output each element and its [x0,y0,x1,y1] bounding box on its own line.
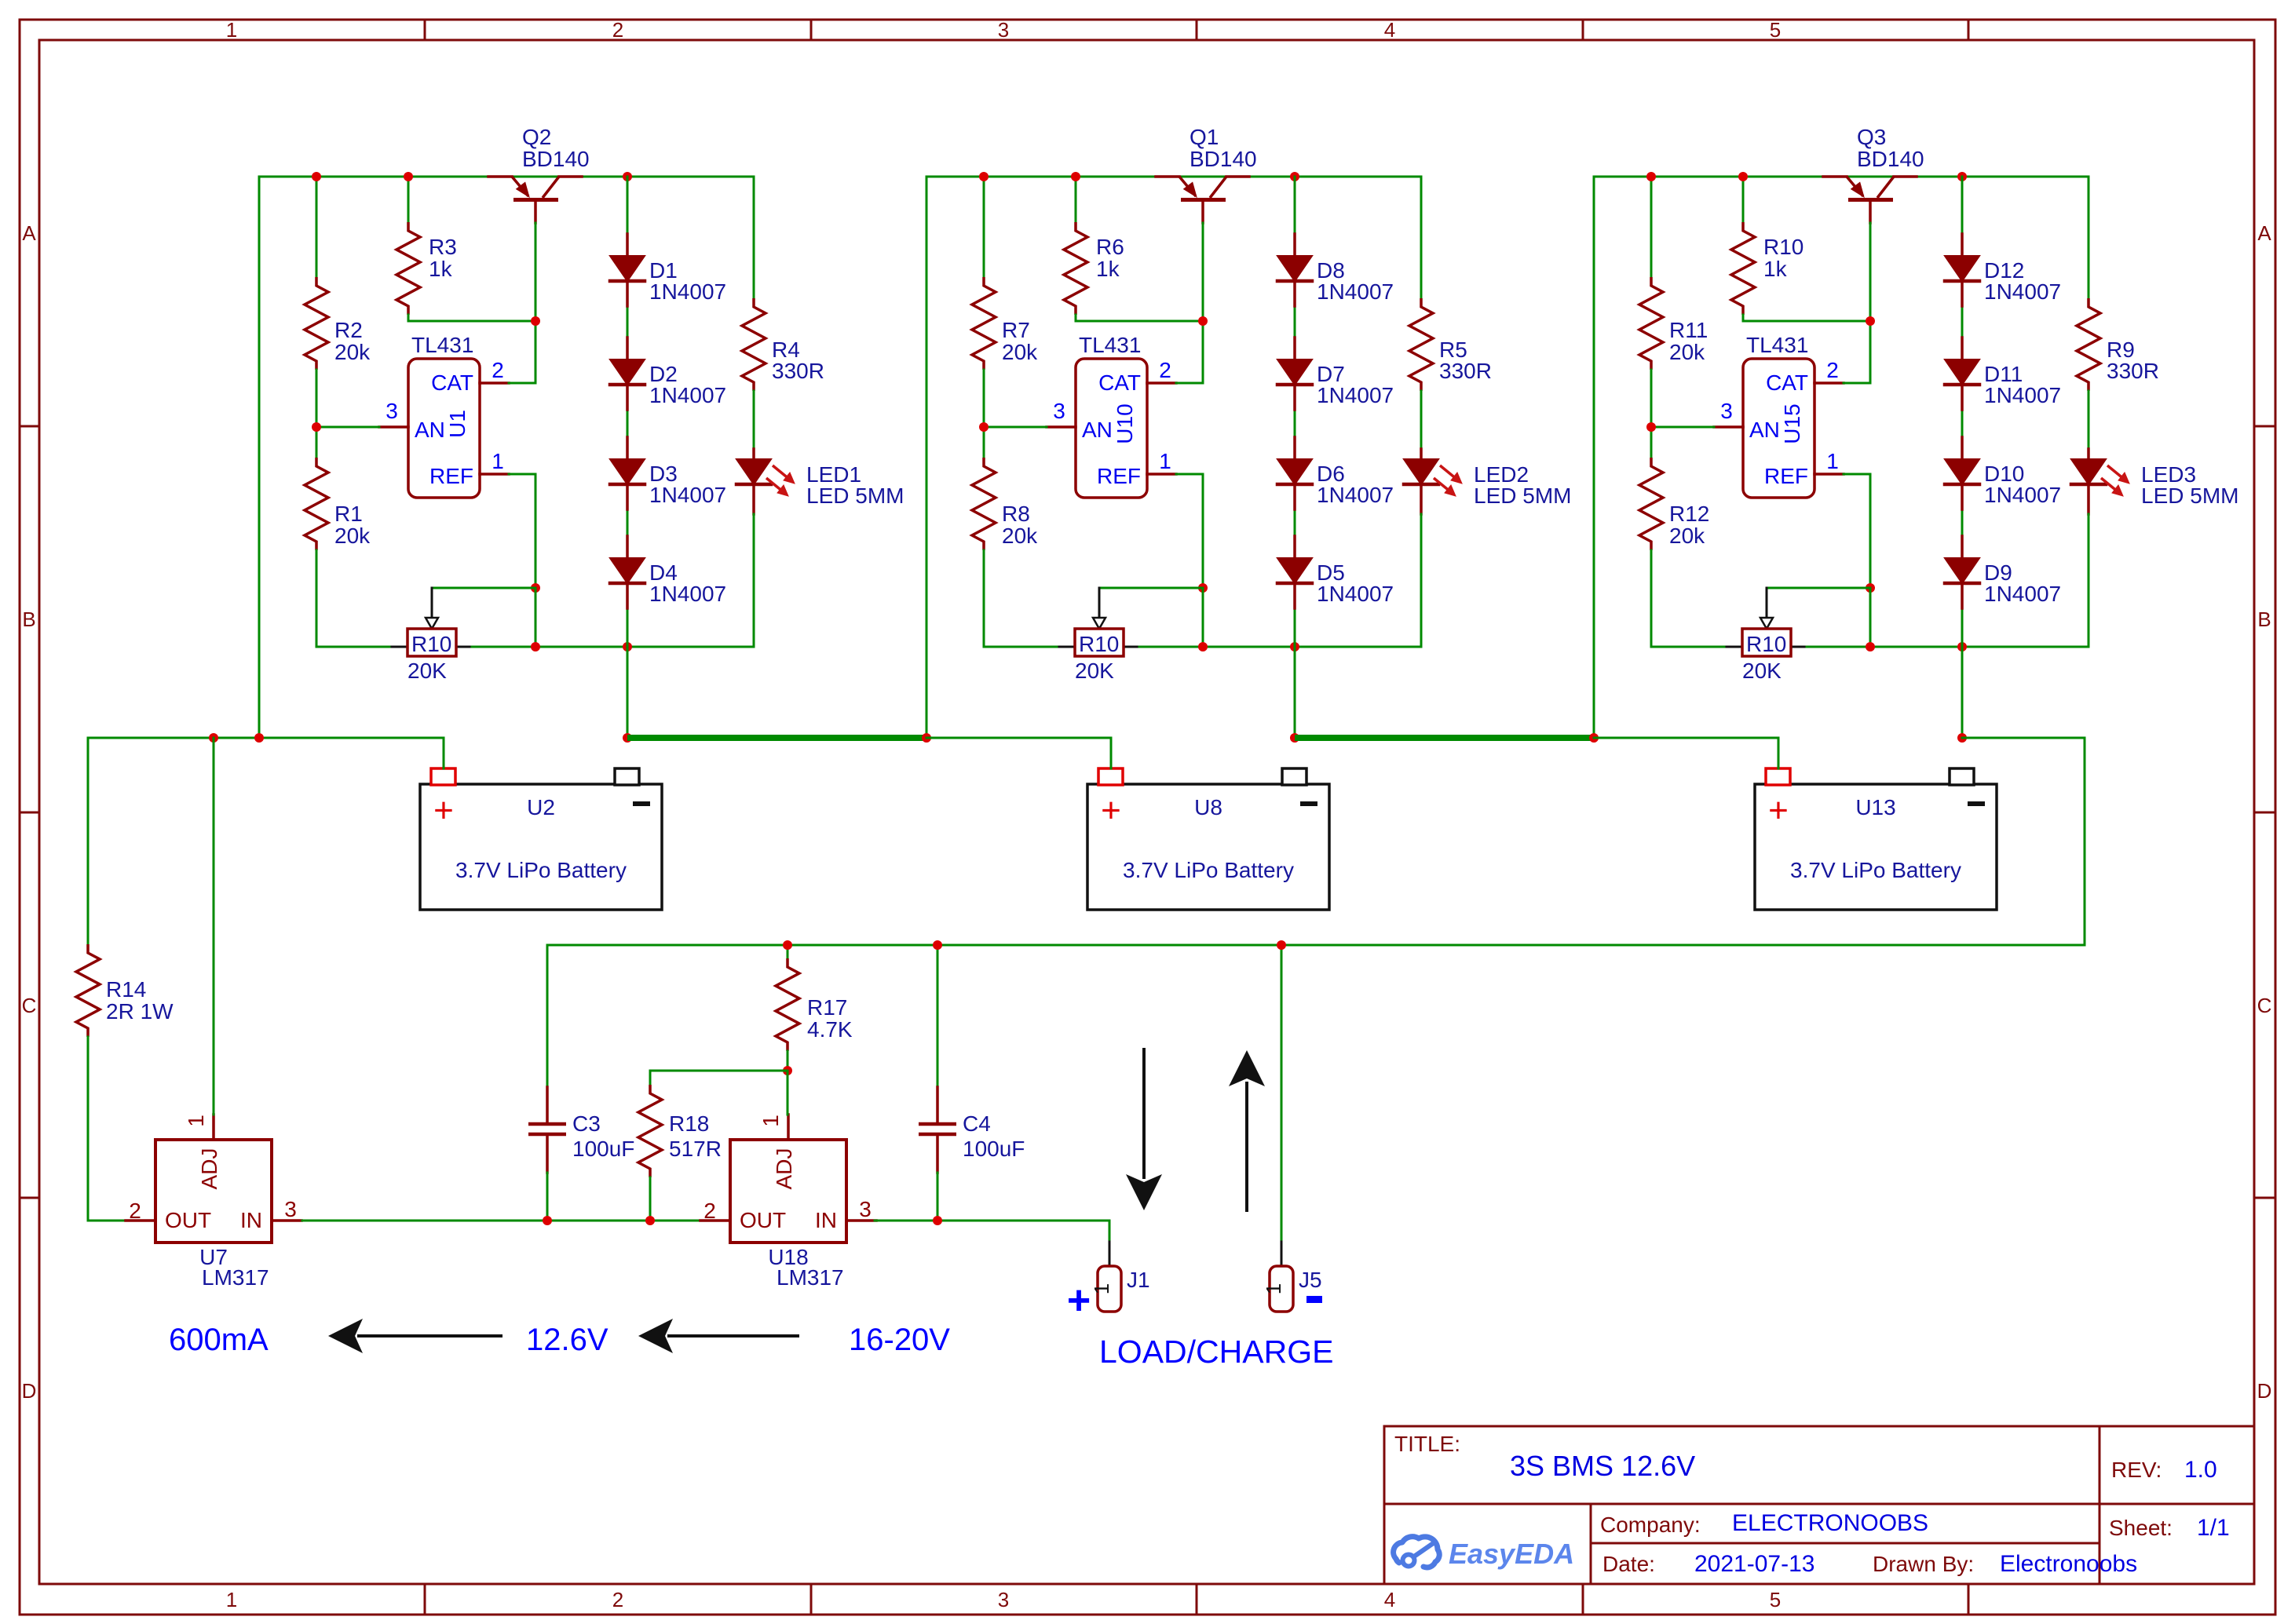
pin 1 REF [1147,449,1203,588]
battery U2 3.7V LiPo [420,768,662,910]
svg-text:R10: R10 [1763,235,1803,259]
svg-text:CAT: CAT [1766,370,1808,395]
svg-text:AN: AN [1082,418,1113,442]
svg-text:20k: 20k [1002,524,1038,548]
svg-text:R6: R6 [1096,235,1124,259]
svg-text:1: 1 [226,1588,237,1611]
wire REF to wiper [1767,587,1870,589]
svg-text:1/1: 1/1 [2197,1515,2230,1541]
wire ADJ U7 riser [213,738,215,1115]
svg-text:AN: AN [415,418,445,442]
svg-text:Sheet:: Sheet: [2109,1516,2173,1540]
svg-text:TL431: TL431 [1079,333,1141,357]
svg-text:1: 1 [1159,449,1171,473]
diode D9 1N4007 [1945,536,2061,608]
svg-text:C: C [2257,994,2272,1017]
diode D8 1N4007 [1277,234,1394,306]
svg-text:100uF: 100uF [572,1137,634,1161]
wire diode column [1961,177,1964,738]
node R3/base junction [531,316,540,326]
svg-text:R17: R17 [807,995,847,1020]
svg-text:3: 3 [386,399,398,423]
label minus terminal [1306,1296,1322,1303]
node top rail junctions [312,172,321,181]
node top rail junctions [979,172,989,181]
svg-text:LED 5MM: LED 5MM [806,484,904,508]
svg-text:Electronoobs: Electronoobs [2000,1551,2137,1577]
svg-text:5: 5 [1770,1588,1781,1611]
svg-text:2: 2 [129,1199,141,1223]
capacitor C3 100uF [528,945,634,1221]
svg-text:U10: U10 [1113,403,1137,443]
wire link to U13+ [1594,738,1778,768]
wire left vertical rail [1593,177,1595,738]
LED LED3 LED 5MM [2071,449,2238,647]
svg-text:R18: R18 [669,1111,709,1136]
svg-text:330R: 330R [2107,359,2159,383]
node C3 bottom [543,1216,552,1225]
wire IN row right [875,1221,1109,1242]
svg-text:330R: 330R [1439,359,1492,383]
transistor Q2 BD140 (PNP) [488,125,590,223]
svg-text:2: 2 [1826,358,1839,382]
svg-text:TL431: TL431 [411,333,473,357]
node C4 bottom [933,1216,942,1225]
svg-text:1: 1 [1262,1283,1285,1294]
wire R17 bottom link [650,1071,788,1085]
LED LED1 LED 5MM [736,449,904,647]
wire REF node down [535,588,537,647]
svg-text:1: 1 [1090,1283,1113,1294]
svg-text:R10: R10 [1746,632,1786,656]
node section1 rail tap [254,733,264,743]
svg-text:1N4007: 1N4007 [1317,483,1394,507]
svg-text:2021-07-13: 2021-07-13 [1694,1551,1814,1577]
svg-text:A: A [22,221,36,245]
svg-text:TITLE:: TITLE: [1394,1432,1460,1456]
svg-text:20k: 20k [1669,524,1705,548]
node U13 minus [1957,733,1967,743]
wire diode column [627,177,629,738]
node R17/R18/ADJ junction [783,1066,792,1075]
svg-text:CAT: CAT [1098,370,1141,395]
resistor R8 20k [972,427,1038,647]
svg-text:Q2: Q2 [522,125,551,149]
resistor R4 330R [742,177,824,449]
node trimmer row junctions [1198,642,1208,651]
potentiometer R10 20K (trimmer) [316,588,754,683]
node R18 bottom [645,1216,655,1225]
resistor R3 1k [397,177,535,321]
wire [937,945,939,1087]
svg-text:Date:: Date: [1602,1552,1655,1576]
pin 3 AN [316,399,408,427]
wire top rail section Q3 [1594,176,2089,178]
svg-text:IN: IN [240,1208,262,1232]
diode D1 1N4007 [610,234,726,306]
svg-text:C4: C4 [963,1111,991,1136]
svg-text:REF: REF [429,464,473,488]
svg-text:20K: 20K [407,659,447,683]
svg-text:1N4007: 1N4007 [1984,383,2061,407]
svg-text:2: 2 [703,1199,716,1223]
diode D12 1N4007 [1945,234,2061,306]
svg-text:R10: R10 [1079,632,1119,656]
node C4 top [933,940,942,950]
svg-text:Drawn By:: Drawn By: [1873,1552,1974,1576]
pin 3 AN [1651,399,1743,427]
svg-text:R3: R3 [429,235,457,259]
connector J1 [1090,1242,1150,1312]
svg-text:R14: R14 [106,977,146,1002]
wire top rail section Q1 [926,176,1421,178]
op-amp/shunt-ref TL431 U15 [1743,333,1814,498]
wire REF to wiper [432,587,535,589]
svg-text:1N4007: 1N4007 [1317,279,1394,304]
node U8 minus [1290,733,1299,743]
resistor R5 330R [1409,177,1492,449]
wire top rail section Q2 [259,176,754,178]
svg-text:BD140: BD140 [522,147,590,171]
node REF junction [1198,583,1208,593]
resistor R18 517R [638,1085,722,1221]
svg-text:1: 1 [492,449,504,473]
svg-text:LED 5MM: LED 5MM [1474,484,1571,508]
svg-text:U8: U8 [1194,795,1222,819]
node U2 minus [623,733,632,743]
op-amp/shunt-ref TL431 U1 [408,333,480,498]
arrow discharge (down) [1126,1048,1162,1210]
svg-text:R1: R1 [334,502,363,526]
svg-text:1: 1 [184,1115,208,1127]
svg-text:B: B [2257,608,2271,631]
transistor Q3 BD140 (PNP) [1823,125,1924,223]
svg-text:600mA: 600mA [169,1323,269,1357]
svg-text:20K: 20K [1075,659,1114,683]
node section2 rail tap [922,733,931,743]
svg-text:D: D [2257,1379,2272,1403]
svg-text:CAT: CAT [431,370,473,395]
wire link to U8+ [926,738,1111,768]
svg-text:OUT: OUT [740,1208,786,1232]
resistor R14 2R 1W [76,738,174,1221]
wire mid bus section1 [88,738,444,768]
wire IN(U7) to OUT(U18) row [302,1220,701,1222]
svg-text:U13: U13 [1855,795,1895,819]
svg-text:1N4007: 1N4007 [649,383,726,407]
wire thick series link U8- to section3 [1295,735,1594,741]
node top rail junctions [1646,172,1656,181]
svg-text:EasyEDA: EasyEDA [1449,1538,1574,1570]
svg-text:1N4007: 1N4007 [1317,383,1394,407]
svg-text:1N4007: 1N4007 [1984,582,2061,606]
svg-text:LED 5MM: LED 5MM [2141,484,2238,508]
node R3/base junction [1866,316,1875,326]
node R3/base junction [1198,316,1208,326]
diode D3 1N4007 [610,437,726,509]
svg-text:A: A [2257,221,2271,245]
wire left vertical rail [258,177,261,738]
svg-text:517R: 517R [669,1137,722,1161]
svg-text:3: 3 [998,1588,1009,1611]
connector J5 [1262,945,1322,1312]
voltage regulator U7 LM317 [126,1115,301,1290]
svg-text:3: 3 [284,1197,297,1221]
svg-text:20k: 20k [334,524,371,548]
svg-text:Company:: Company: [1600,1513,1701,1537]
wire base/CAT node [1202,223,1204,383]
node J5 top [1277,940,1286,950]
resistor R12 20k [1639,427,1709,647]
node AN junction [312,422,321,432]
diode D7 1N4007 [1277,338,1394,410]
svg-text:20k: 20k [334,340,371,364]
wire [546,945,549,1087]
resistor R1 20k [305,427,371,647]
svg-text:4.7K: 4.7K [807,1017,853,1042]
svg-text:2: 2 [492,358,504,382]
svg-text:J5: J5 [1299,1268,1322,1292]
svg-text:TL431: TL431 [1746,333,1808,357]
svg-text:+: + [1101,791,1121,830]
svg-text:R8: R8 [1002,502,1030,526]
resistor R9 330R [2077,177,2159,449]
battery U8 3.7V LiPo [1087,768,1329,910]
diode D11 1N4007 [1945,338,2061,410]
arrow current flow 2 (left) [638,1319,799,1353]
node ADJ tap [209,733,218,743]
svg-text:U15: U15 [1780,403,1804,443]
svg-text:20K: 20K [1742,659,1782,683]
svg-text:U2: U2 [527,795,555,819]
svg-text:3: 3 [1053,399,1065,423]
battery U13 3.7V LiPo [1755,768,1997,910]
pin 2 CAT [1814,358,1870,383]
arrow charge (up) [1229,1050,1265,1212]
svg-text:D: D [22,1379,37,1403]
svg-text:3S BMS 12.6V: 3S BMS 12.6V [1510,1450,1695,1482]
svg-text:330R: 330R [772,359,824,383]
svg-text:U1: U1 [445,410,470,438]
svg-text:REV:: REV: [2111,1458,2162,1482]
svg-text:5: 5 [1770,18,1781,42]
wire left vertical rail [926,177,928,738]
resistor R10 1k [1731,177,1870,321]
svg-text:4: 4 [1384,18,1395,42]
wire thick series link U2- to section2 [627,735,926,741]
resistor R11 20k [1639,177,1708,427]
potentiometer R10 20K (trimmer) [984,588,1421,683]
node REF junction [1866,583,1875,593]
svg-text:ADJ: ADJ [197,1148,221,1190]
svg-text:Q3: Q3 [1857,125,1886,149]
svg-text:12.6V: 12.6V [526,1323,608,1357]
diode D4 1N4007 [610,536,726,608]
voltage regulator U18 LM317 [700,1115,876,1290]
svg-text:BD140: BD140 [1190,147,1257,171]
svg-text:3: 3 [859,1197,872,1221]
wire REF node down [1202,588,1204,647]
svg-text:REF: REF [1097,464,1141,488]
svg-text:1: 1 [1826,449,1839,473]
EasyEDA logo [1394,1537,1574,1570]
svg-text:1N4007: 1N4007 [1984,483,2061,507]
svg-text:B: B [22,608,35,631]
node AN junction [1646,422,1656,432]
svg-text:1N4007: 1N4007 [649,483,726,507]
svg-text:+: + [433,791,454,830]
svg-text:IN: IN [815,1208,837,1232]
LED LED2 LED 5MM [1404,449,1571,647]
wire ADJ U18 [787,1071,789,1115]
capacitor C4 100uF [919,945,1025,1221]
node AN junction [979,422,989,432]
svg-text:+: + [1768,791,1789,830]
svg-text:2: 2 [612,18,623,42]
wire REF to wiper [1099,587,1203,589]
diode D6 1N4007 [1277,437,1394,509]
svg-text:C3: C3 [572,1111,601,1136]
svg-text:1: 1 [758,1115,783,1127]
wire REF node down [1869,588,1872,647]
svg-text:ADJ: ADJ [772,1148,796,1190]
svg-text:3.7V LiPo Battery: 3.7V LiPo Battery [1123,858,1294,882]
svg-text:2: 2 [1159,358,1171,382]
wire base/CAT node [1869,223,1872,383]
svg-text:20k: 20k [1669,340,1705,364]
pin 1 REF [480,449,535,588]
svg-text:ELECTRONOOBS: ELECTRONOOBS [1732,1510,1928,1536]
pin 2 CAT [1147,358,1203,383]
svg-text:1k: 1k [1096,257,1120,281]
svg-text:R10: R10 [411,632,451,656]
svg-text:2R 1W: 2R 1W [106,999,174,1024]
svg-text:BD140: BD140 [1857,147,1924,171]
pin 3 AN [984,399,1076,427]
op-amp/shunt-ref TL431 U10 [1076,333,1147,498]
svg-text:J1: J1 [1127,1268,1150,1292]
svg-text:2: 2 [612,1588,623,1611]
potentiometer R10 20K (trimmer) [1651,588,2089,683]
svg-text:1.0: 1.0 [2184,1457,2217,1483]
node trimmer row junctions [531,642,540,651]
resistor R6 1k [1064,177,1203,321]
node section3 rail tap [1589,733,1599,743]
wire OUT row left [88,1220,126,1222]
svg-text:AN: AN [1749,418,1780,442]
diode D5 1N4007 [1277,536,1394,608]
svg-text:100uF: 100uF [963,1137,1025,1161]
svg-text:1k: 1k [1763,257,1788,281]
svg-text:R12: R12 [1669,502,1709,526]
diode D2 1N4007 [610,338,726,410]
resistor R7 20k [972,177,1038,427]
wire base/CAT node [535,223,537,383]
pin 2 CAT [480,358,535,383]
transistor Q1 BD140 (PNP) [1156,125,1257,223]
svg-text:3: 3 [1720,399,1733,423]
wire bottom bus (battery stack negative) [547,944,2085,947]
svg-text:3: 3 [998,18,1009,42]
wire U13- to bottom bus [1962,738,2085,945]
arrow current flow 1 (left) [328,1319,502,1353]
svg-text:LOAD/CHARGE: LOAD/CHARGE [1099,1334,1333,1370]
wire diode column [1294,177,1296,738]
svg-text:1N4007: 1N4007 [1984,279,2061,304]
resistor R17 4.7K [776,945,853,1071]
svg-text:REF: REF [1764,464,1808,488]
svg-text:R7: R7 [1002,318,1030,342]
svg-text:+: + [1067,1278,1091,1323]
svg-text:C: C [22,994,37,1017]
svg-text:R11: R11 [1669,318,1708,342]
svg-text:OUT: OUT [165,1208,211,1232]
diode D10 1N4007 [1945,437,2061,509]
svg-text:20k: 20k [1002,340,1038,364]
node REF junction [531,583,540,593]
svg-text:1N4007: 1N4007 [649,279,726,304]
svg-text:4: 4 [1384,1588,1395,1611]
node R17 top [783,940,792,950]
pin 1 REF [1814,449,1870,588]
svg-text:R2: R2 [334,318,363,342]
svg-text:LM317: LM317 [202,1265,269,1290]
svg-text:1: 1 [226,18,237,42]
svg-text:16-20V: 16-20V [849,1323,950,1357]
svg-text:3.7V LiPo Battery: 3.7V LiPo Battery [455,858,627,882]
title block [1384,1426,2254,1584]
svg-text:LM317: LM317 [777,1265,844,1290]
svg-text:1k: 1k [429,257,453,281]
svg-text:3.7V LiPo Battery: 3.7V LiPo Battery [1790,858,1961,882]
svg-text:Q1: Q1 [1190,125,1219,149]
svg-text:1N4007: 1N4007 [1317,582,1394,606]
node trimmer row junctions [1866,642,1875,651]
resistor R2 20k [305,177,371,427]
svg-text:1N4007: 1N4007 [649,582,726,606]
